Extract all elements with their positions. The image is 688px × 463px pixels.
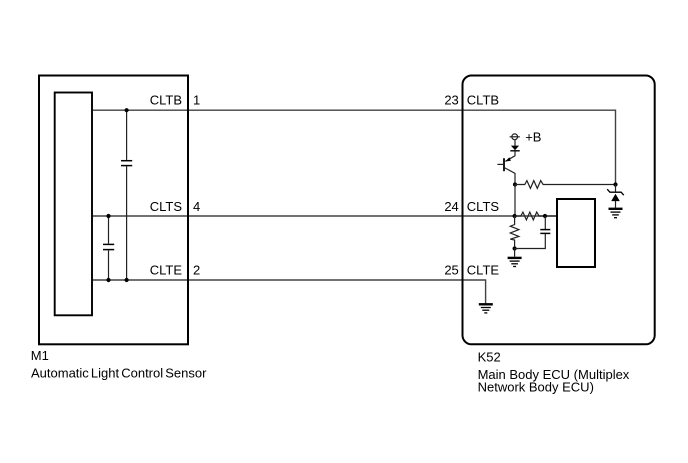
svg-text:K52: K52 <box>478 350 501 365</box>
svg-text:CLTE: CLTE <box>150 262 183 277</box>
svg-text:CLTS: CLTS <box>150 199 183 214</box>
svg-text:Automatic Light Control Sensor: Automatic Light Control Sensor <box>31 365 207 380</box>
svg-text:CLTE: CLTE <box>467 262 500 277</box>
svg-text:M1: M1 <box>31 348 49 363</box>
svg-text:Network Body ECU): Network Body ECU) <box>478 379 594 394</box>
svg-text:25: 25 <box>444 262 458 277</box>
svg-text:4: 4 <box>193 199 200 214</box>
svg-text:23: 23 <box>444 93 458 108</box>
svg-text:CLTB: CLTB <box>150 93 182 108</box>
svg-text:+B: +B <box>525 129 541 144</box>
svg-text:1: 1 <box>193 93 200 108</box>
svg-text:CLTB: CLTB <box>467 93 499 108</box>
svg-text:2: 2 <box>193 262 200 277</box>
svg-text:24: 24 <box>444 199 458 214</box>
svg-text:CLTS: CLTS <box>467 199 500 214</box>
